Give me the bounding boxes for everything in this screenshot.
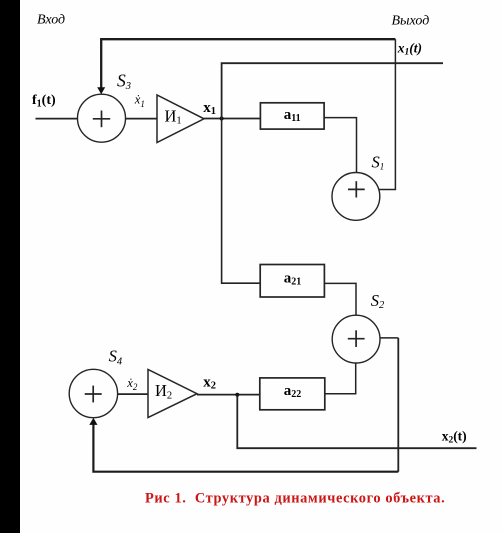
- wire top feedback to S3: [101, 39, 395, 88]
- arrowhead into S4: [89, 418, 97, 425]
- svg-text:x2(t): x2(t): [442, 428, 467, 445]
- svg-text:f1(t): f1(t): [32, 93, 56, 110]
- wire S1 right side: [379, 189, 396, 191]
- block a22: [260, 378, 325, 410]
- summator S4 circle: [69, 369, 117, 417]
- svg-text:Вход: Вход: [37, 13, 65, 28]
- plus sign in S1: [348, 181, 365, 197]
- wire x2 junction down and right to output x2(t): [237, 395, 476, 448]
- wire S4 to integrator И2: [118, 393, 148, 395]
- svg-text:x1(t): x1(t): [397, 41, 422, 58]
- block a21: [260, 265, 324, 298]
- wire x1 junction down to a21: [222, 119, 261, 284]
- summator S2 circle: [332, 315, 380, 363]
- summator S3 circle: [78, 94, 126, 142]
- wire a11 to S1: [324, 118, 356, 173]
- wire x1 junction up and right to output x1(t): [222, 63, 443, 118]
- svg-text:Выход: Выход: [392, 14, 430, 29]
- integrator И2 triangle: [148, 369, 197, 417]
- wire a21 to S2: [324, 283, 356, 315]
- summator S1 circle: [332, 173, 380, 221]
- plus sign in S2: [348, 330, 365, 347]
- wire feedback up from S1: [394, 39, 396, 190]
- wire S3 to integrator И1: [126, 118, 157, 120]
- wire И1 output to a11 block: [204, 118, 260, 120]
- wire feedback down from S2: [397, 338, 399, 472]
- node x2 junction dot: [235, 393, 239, 397]
- plus sign in S4: [85, 386, 102, 403]
- plus sign in S3: [93, 111, 110, 128]
- wire f1 input to S3: [36, 118, 78, 120]
- wire И2 output to a22 block: [197, 394, 260, 396]
- wire bottom feedback to S4: [93, 424, 398, 471]
- node x1 junction dot: [220, 117, 224, 121]
- wire a22 to S2 bottom: [325, 363, 356, 394]
- integrator И1 triangle: [157, 95, 204, 143]
- arrowhead into S3: [97, 87, 105, 94]
- wire S2 right side: [380, 337, 399, 339]
- block a11: [260, 103, 324, 129]
- svg-text:Рис 1. Структура динамическог: Рис 1. Структура динамического объекта.: [145, 490, 445, 506]
